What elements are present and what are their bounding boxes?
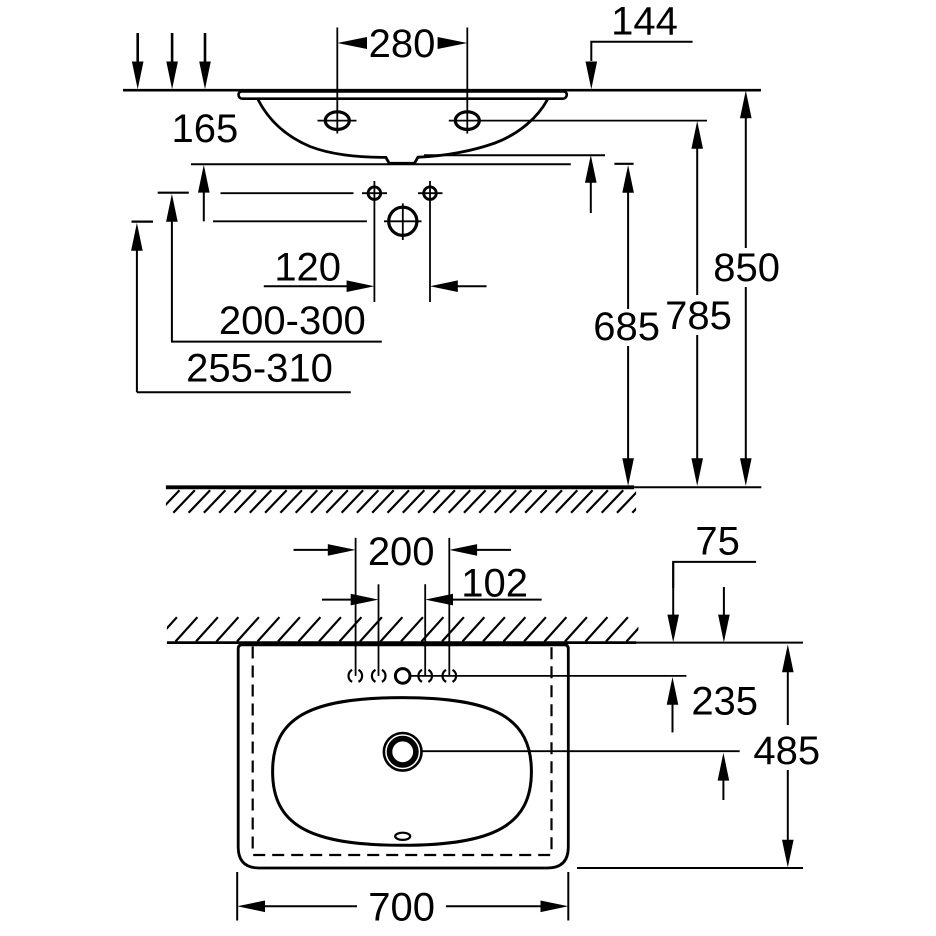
svg-text:850: 850 xyxy=(713,246,780,290)
svg-text:200: 200 xyxy=(368,530,435,574)
svg-text:165: 165 xyxy=(172,107,239,151)
svg-text:200-300: 200-300 xyxy=(219,299,366,343)
svg-text:120: 120 xyxy=(274,245,341,289)
svg-text:280: 280 xyxy=(369,22,436,66)
svg-text:75: 75 xyxy=(695,519,740,563)
svg-text:235: 235 xyxy=(691,679,758,723)
svg-text:485: 485 xyxy=(753,729,820,773)
svg-text:785: 785 xyxy=(665,294,732,338)
svg-text:700: 700 xyxy=(368,885,435,929)
svg-text:255-310: 255-310 xyxy=(186,347,333,391)
svg-text:144: 144 xyxy=(611,0,678,44)
svg-text:685: 685 xyxy=(593,305,660,349)
